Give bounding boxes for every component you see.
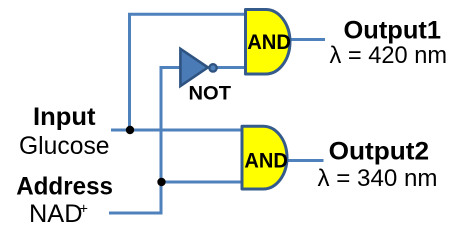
svg-text:NOT: NOT [189,83,232,105]
svg-text:AND: AND [244,150,288,173]
svg-text:Output1: Output1 [344,16,442,44]
svg-text:Glucose: Glucose [19,132,110,160]
svg-text:NAD: NAD [29,200,83,228]
svg-text:AND: AND [247,31,291,54]
svg-text:λ = 340 nm: λ = 340 nm [318,165,438,192]
svg-text:+: + [80,202,88,218]
svg-text:Address: Address [16,172,113,200]
svg-text:Input: Input [33,103,96,131]
svg-text:Output2: Output2 [329,138,430,166]
svg-text:λ = 420 nm: λ = 420 nm [330,42,448,69]
